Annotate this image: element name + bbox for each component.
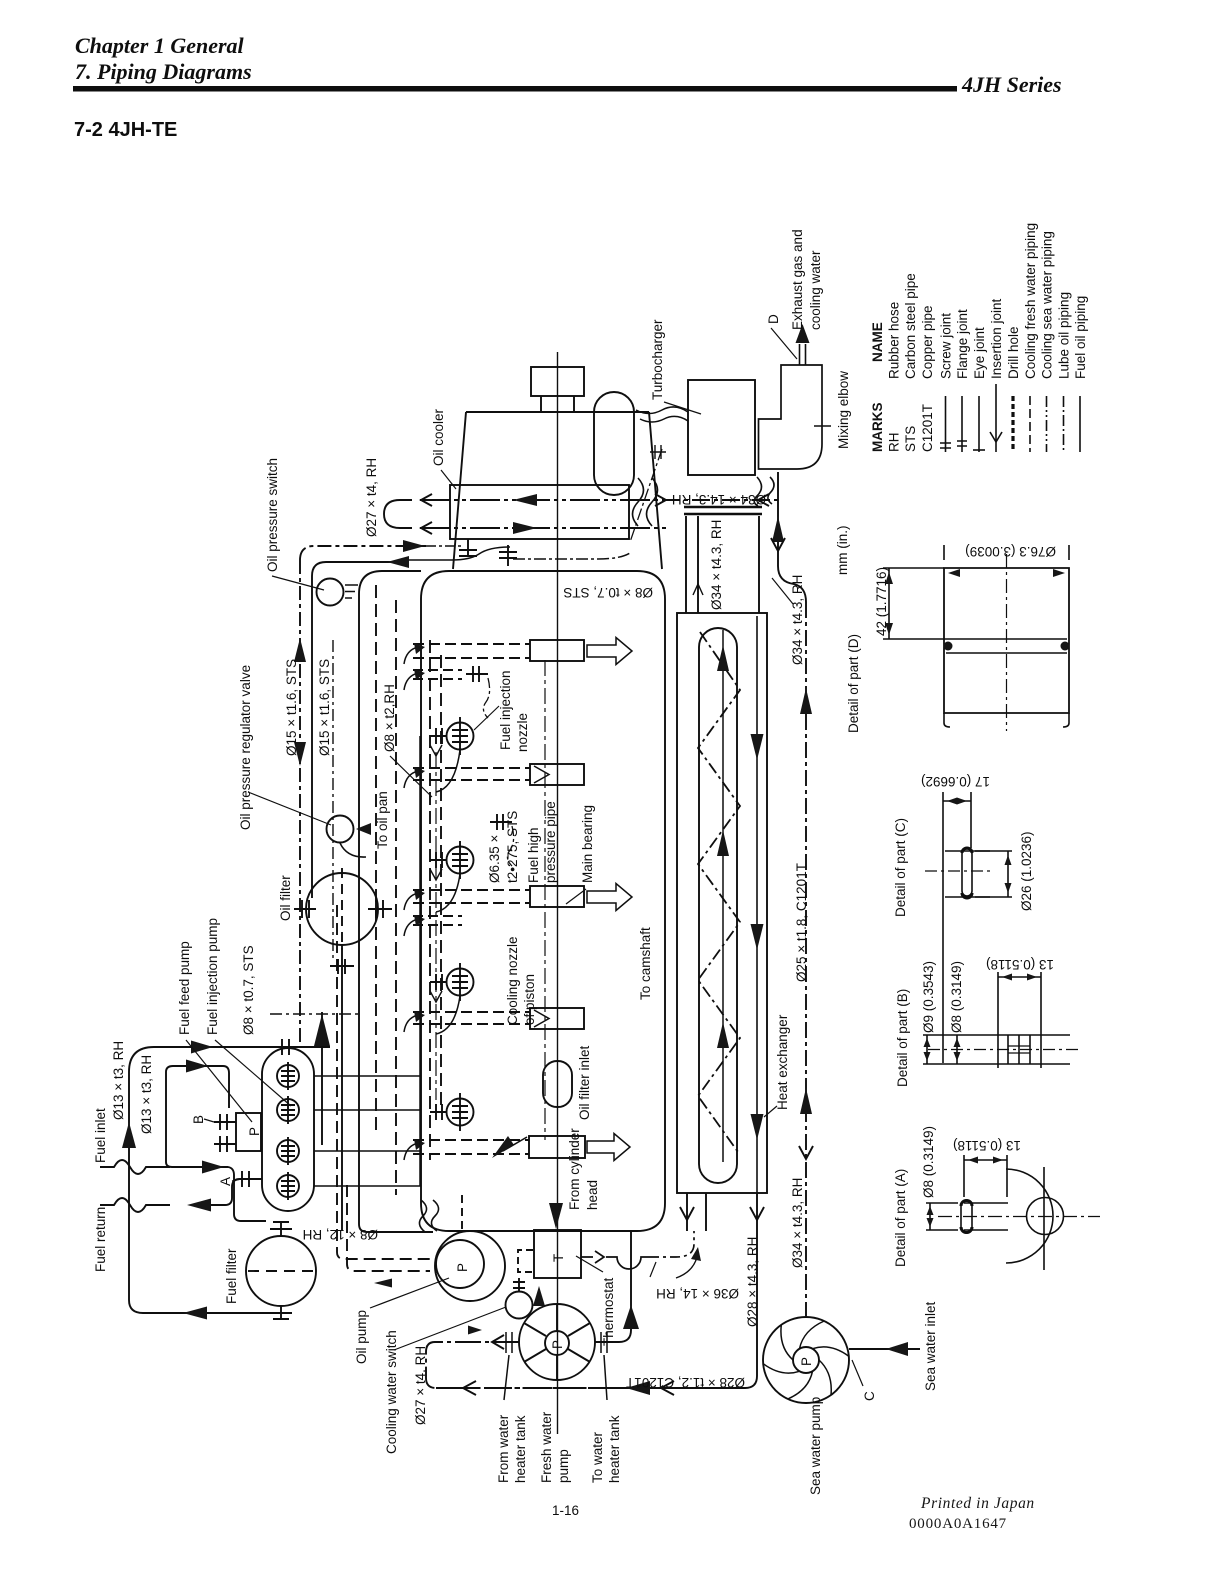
fuel gallery riser: [314, 1012, 330, 1145]
svg-text:Fresh water: Fresh water: [539, 1411, 554, 1483]
svg-text:Cooling water switch: Cooling water switch: [384, 1330, 399, 1454]
fuel injection pump body: [262, 1048, 314, 1211]
svg-text:Lube oil piping: Lube oil piping: [1057, 292, 1072, 379]
HE top flange: [684, 507, 762, 514]
svg-text:Rubber hose: Rubber hose: [887, 302, 902, 379]
HE zigzag coil: [698, 632, 740, 1152]
svg-text:RH: RH: [887, 433, 902, 453]
lube line to turbocharger (dash-dot diagonal): [630, 449, 662, 542]
svg-text:Detail of part (C): Detail of part (C): [893, 818, 908, 917]
fuel return line with pipe break: [100, 1198, 170, 1212]
svg-text:Ø8 × t2,RH: Ø8 × t2,RH: [382, 684, 397, 752]
HE outlet pipes to engine: [680, 1193, 706, 1231]
oil gallery rect row5: [413, 1134, 630, 1161]
svg-text:Ø8 × 12, RH: Ø8 × 12, RH: [303, 1227, 378, 1242]
sea water inlet line: [849, 1342, 920, 1386]
svg-text:Sea water inlet: Sea water inlet: [923, 1301, 938, 1391]
detail A centerlines: [938, 1216, 1100, 1218]
svg-text:Detail of part (D): Detail of part (D): [846, 634, 861, 733]
svg-text:7-2 4JH-TE: 7-2 4JH-TE: [74, 119, 177, 141]
svg-text:42 (1.7716): 42 (1.7716): [874, 567, 889, 636]
svg-text:Ø8 (0.3149): Ø8 (0.3149): [921, 1126, 936, 1198]
svg-text:Fuel inlet: Fuel inlet: [93, 1108, 108, 1163]
svg-text:Fuel high: Fuel high: [526, 827, 541, 883]
legend mark: insertion joint sample: [990, 384, 1002, 452]
svg-text:Fuel return: Fuel return: [93, 1207, 108, 1272]
svg-text:Screw joint: Screw joint: [939, 313, 954, 379]
MAIN DIAGRAM: [100, 324, 920, 1434]
valve cover (rocker cover trapezoid): [453, 412, 662, 569]
HE sea water return pipe: [436, 1193, 764, 1395]
svg-text:Ø26 (1.0236): Ø26 (1.0236): [1019, 831, 1034, 911]
footer text: [552, 1495, 1035, 1532]
fuel injection nozzle 2: [430, 841, 474, 880]
svg-text:Detail of part (B): Detail of part (B): [895, 989, 910, 1087]
svg-text:Detail of part (A): Detail of part (A): [893, 1169, 908, 1267]
svg-text:Carbon steel pipe: Carbon steel pipe: [903, 273, 918, 379]
svg-text:Oil pressure switch: Oil pressure switch: [265, 458, 280, 572]
flow hook arrows at gallery junctions: [404, 643, 425, 1160]
svg-text:Ø8 (0.3149): Ø8 (0.3149): [949, 961, 964, 1033]
pump element 1: [277, 1062, 299, 1090]
oil drain S-curve to block: [408, 547, 510, 560]
svg-text:Ø8 × t0.7, STS: Ø8 × t0.7, STS: [563, 585, 653, 600]
svg-text:13 (0.5118): 13 (0.5118): [953, 1138, 1021, 1153]
detail A part: banjo eye: [961, 1167, 1064, 1270]
svg-text:Cooling nozzle: Cooling nozzle: [505, 936, 520, 1025]
rubber hose U-bend left of oil cooler: [384, 500, 412, 528]
svg-text:mm (in.): mm (in.): [835, 526, 850, 576]
detail C dim 26: [975, 851, 1012, 897]
svg-text:Ø28 × t1.2, C1201T: Ø28 × t1.2, C1201T: [626, 1375, 745, 1390]
svg-text:1-16: 1-16: [552, 1503, 579, 1518]
HE internal tube lines with arrows: [717, 630, 729, 1162]
svg-text:Main bearing: Main bearing: [580, 805, 595, 883]
fw pump suction pipe: [426, 1326, 624, 1396]
svg-text:C: C: [862, 1391, 877, 1401]
svg-text:T: T: [551, 1254, 566, 1262]
oil line filter to pump: [330, 945, 354, 1231]
mixing elbow: [759, 365, 823, 469]
svg-text:17 (0.6692): 17 (0.6692): [921, 774, 990, 789]
oil cooler pipe 2: [420, 522, 668, 534]
high pressure pipe curves: [436, 750, 460, 1034]
svg-text:Flange joint: Flange joint: [955, 309, 970, 379]
bellows turbo bottom: [754, 477, 774, 506]
right elbow downpipe: [771, 472, 806, 602]
wavy joint engine to turbocharger: [636, 407, 688, 422]
engine block outline: [421, 571, 665, 1231]
svg-text:Fuel oil piping: Fuel oil piping: [1073, 296, 1088, 379]
engine center line: [557, 352, 559, 1434]
svg-text:Thermostat: Thermostat: [601, 1277, 616, 1346]
detail B dim lines: [924, 972, 1042, 1064]
svg-text:of piston: of piston: [522, 974, 537, 1025]
A port fitting: [242, 1171, 249, 1187]
legend mark: lube oil piping sample: [1063, 396, 1065, 452]
svg-text:Cooling sea water piping: Cooling sea water piping: [1040, 231, 1055, 379]
detail C dim 17: [943, 798, 971, 805]
svg-text:MARKS: MARKS: [870, 403, 885, 453]
header text: [74, 33, 1062, 141]
fuel inlet line with pipe break: [100, 1160, 170, 1174]
fuel feed pump: [214, 1113, 261, 1152]
svg-text:Ø34 × 14.3, RH: Ø34 × 14.3, RH: [672, 492, 766, 507]
svg-text:From water: From water: [496, 1414, 511, 1483]
detail D hose body: [944, 568, 1070, 727]
svg-text:To water: To water: [590, 1431, 605, 1483]
svg-text:To camshaft: To camshaft: [638, 927, 653, 1000]
svg-text:Mixing elbow: Mixing elbow: [836, 371, 851, 449]
svg-text:D: D: [766, 314, 781, 324]
svg-text:Insertion joint: Insertion joint: [989, 298, 1004, 379]
cooling water switch: [394, 1292, 533, 1351]
svg-text:pump: pump: [556, 1449, 571, 1483]
oil pressure regulator valve: [248, 792, 371, 857]
svg-text:Ø36 × 14, RH: Ø36 × 14, RH: [656, 1286, 739, 1301]
svg-text:Ø8 × t0.7, STS: Ø8 × t0.7, STS: [241, 945, 256, 1035]
fw pump outlet riser: [595, 1231, 639, 1342]
heater tank flanges: [504, 1332, 607, 1400]
svg-text:13 (0.5118): 13 (0.5118): [986, 957, 1054, 972]
svg-text:Exhaust gas and: Exhaust gas and: [790, 229, 805, 330]
fresh water pump: [519, 1304, 595, 1380]
svg-text:Ø34 × t4.3, RH: Ø34 × t4.3, RH: [790, 575, 805, 665]
svg-text:nozzle: nozzle: [515, 713, 530, 752]
oil feed line to cooler (dash-dot): [294, 540, 426, 1042]
svg-text:C1201T: C1201T: [920, 404, 935, 452]
svg-text:Oil pump: Oil pump: [354, 1310, 369, 1364]
secondary dashed feed rows: [413, 670, 462, 679]
oil pump inlet bellows: [419, 1200, 438, 1232]
fuel filter: [246, 1221, 316, 1320]
fuel injection nozzle 1: [430, 717, 474, 756]
detail B part: [923, 1031, 1070, 1068]
oil cooler drain fitting 1: [459, 539, 477, 557]
svg-text:Turbocharger: Turbocharger: [650, 319, 665, 400]
svg-text:Oil filter inlet: Oil filter inlet: [577, 1045, 592, 1120]
screw fitting on valve cover right: [650, 445, 666, 459]
heat exchanger shell: [677, 613, 767, 1193]
svg-text:Ø15 × t1.6, STS: Ø15 × t1.6, STS: [284, 659, 299, 756]
legend mark: screw joint sample: [940, 396, 951, 452]
thermostat outlet hose to heat exchanger: [581, 1231, 701, 1278]
svg-text:Drill hole: Drill hole: [1006, 326, 1021, 379]
filler cap: [531, 367, 584, 413]
DETAILS: [883, 545, 1100, 1270]
oil pressure switch: [272, 576, 358, 606]
svg-text:Oil cooler: Oil cooler: [431, 408, 446, 466]
svg-text:Ø15 × t1.6, STS: Ø15 × t1.6, STS: [317, 659, 332, 756]
svg-text:Ø6.35 ×: Ø6.35 ×: [487, 835, 502, 883]
fuel outer loop: [122, 1041, 330, 1320]
fuel injection nozzle 3: [430, 963, 474, 1002]
pump element 4: [277, 1172, 299, 1200]
LEGEND: [940, 384, 1080, 452]
svg-text:Fuel feed pump: Fuel feed pump: [177, 941, 192, 1035]
legend mark: eye joint sample: [973, 396, 985, 452]
HE inner tube capsule: [699, 628, 737, 1183]
camshaft feed rect row2: [413, 764, 584, 785]
detail A dim 8: [926, 1203, 958, 1230]
oil gallery dashed risers: [375, 585, 377, 1135]
detail D centerline: [1006, 554, 1008, 731]
legend mark: drill hole sample: [1011, 396, 1014, 452]
exhaust gas arrow D: [771, 324, 810, 365]
detail A dim 13: [964, 1155, 1007, 1197]
svg-text:heater tank: heater tank: [513, 1415, 528, 1483]
svg-text:Ø28 × t4.3, RH: Ø28 × t4.3, RH: [745, 1237, 760, 1327]
turbocharger: [688, 380, 755, 475]
svg-text:Ø76.3 (3.0039): Ø76.3 (3.0039): [965, 544, 1056, 559]
detail C centerline: [925, 870, 990, 872]
svg-text:7. Piping Diagrams: 7. Piping Diagrams: [75, 59, 252, 84]
svg-text:B: B: [191, 1115, 206, 1124]
svg-text:head: head: [585, 1180, 600, 1210]
svg-text:P: P: [247, 1127, 262, 1136]
svg-text:Heat exchanger: Heat exchanger: [775, 1014, 790, 1110]
detail labels: [835, 526, 1056, 1268]
svg-text:NAME: NAME: [870, 322, 885, 362]
legend mark: cooling fresh water piping sample: [1029, 396, 1031, 452]
fuel injection nozzle 4: [430, 1093, 474, 1131]
sea water riser (dash-dot): [799, 602, 813, 1316]
svg-text:Copper pipe: Copper pipe: [920, 305, 935, 379]
svg-text:Printed in Japan: Printed in Japan: [920, 1495, 1035, 1512]
svg-text:P: P: [455, 1263, 470, 1272]
injection delivery lines: [314, 1076, 421, 1186]
oil cooler pipe 1: [420, 494, 680, 506]
svg-text:Ø13 × t3, RH: Ø13 × t3, RH: [139, 1055, 154, 1134]
engine block outer left wall: [359, 571, 433, 1232]
cam centerline dashdot: [544, 660, 546, 1140]
svg-text:Ø27 × t4, RH: Ø27 × t4, RH: [413, 1346, 428, 1425]
screw fittings on head: [466, 666, 490, 718]
fuel leak-off dashed lines: [337, 905, 462, 1288]
svg-text:From cylinder: From cylinder: [567, 1128, 582, 1210]
HP pipe bundle riser: [419, 736, 421, 1186]
legend mark: flange joint sample: [957, 396, 967, 452]
oil return line from cooler: [312, 556, 409, 898]
svg-text:Oil filter: Oil filter: [278, 875, 293, 921]
svg-text:Oil pressure regulator valve: Oil pressure regulator valve: [238, 665, 253, 830]
fuel inner loop: [166, 1060, 266, 1222]
oil filter inlet capsule: [543, 1061, 572, 1107]
HE neck: [686, 516, 759, 613]
legend mark: fuel oil piping sample: [1079, 396, 1081, 452]
svg-text:4JH Series: 4JH Series: [961, 72, 1062, 97]
oil pump leader: [370, 1278, 449, 1308]
svg-text:P: P: [550, 1340, 565, 1349]
legend text: [870, 223, 1088, 452]
detail D dim 42: [883, 568, 946, 639]
svg-text:Eye joint: Eye joint: [972, 327, 987, 379]
fuel gallery line into block (dash-dot): [270, 1013, 360, 1015]
svg-text:cooling water: cooling water: [808, 250, 823, 330]
svg-text:Ø34 × t4.3, RH: Ø34 × t4.3, RH: [790, 1178, 805, 1268]
svg-text:Ø34 × t4.3, RH: Ø34 × t4.3, RH: [709, 520, 724, 610]
engine water outlet hose to HE (y500): [655, 494, 778, 506]
svg-text:To oil pan: To oil pan: [375, 791, 390, 849]
svg-text:Fuel injection: Fuel injection: [498, 670, 513, 750]
svg-text:Cooling fresh water piping: Cooling fresh water piping: [1023, 223, 1038, 379]
oil cooler body: [450, 485, 629, 539]
svg-text:Ø27 × t4, RH: Ø27 × t4, RH: [364, 458, 379, 537]
main bearing rect row1: [413, 638, 632, 665]
detail D dim 76.3: [944, 545, 1069, 577]
injection pump top fitting: [282, 1039, 289, 1055]
detail B centerline: [928, 1049, 1078, 1051]
svg-text:t2•275, STS: t2•275, STS: [505, 811, 520, 883]
svg-text:pressure pipe: pressure pipe: [543, 801, 558, 883]
svg-text:Sea water pump: Sea water pump: [808, 1397, 823, 1495]
oil pump: [435, 1231, 505, 1301]
fuel A-port return: [187, 1179, 262, 1212]
fuel return rail: [332, 640, 334, 958]
oil cooler drain fitting 2: [499, 545, 517, 566]
thermostat box: [513, 1230, 603, 1306]
leader lines for labels: [186, 402, 793, 1181]
svg-text:0000A0A1647: 0000A0A1647: [909, 1516, 1007, 1532]
svg-text:P: P: [799, 1357, 814, 1366]
bellows engine right side: [633, 478, 658, 526]
svg-text:Fuel injection pump: Fuel injection pump: [205, 918, 220, 1035]
nozzle leak-off risers: [435, 752, 437, 1100]
camshaft feed rect row4: [413, 1008, 584, 1029]
main bearing rect row3: [413, 884, 632, 911]
svg-text:Fuel filter: Fuel filter: [224, 1248, 239, 1304]
svg-text:Ø13 × t3, RH: Ø13 × t3, RH: [111, 1041, 126, 1120]
header rule: [73, 86, 957, 92]
from cylinder head arrow: [549, 1203, 563, 1229]
pump element 3: [277, 1137, 299, 1165]
svg-text:Ø25 × t1.8, C1201T: Ø25 × t1.8, C1201T: [794, 863, 809, 982]
exhaust manifold capsule: [594, 392, 634, 495]
detail C part: [943, 792, 990, 1063]
svg-text:Ø9 (0.3543): Ø9 (0.3543): [921, 961, 936, 1033]
sea water pump: [763, 1317, 849, 1403]
pump element 2: [277, 1096, 299, 1124]
svg-text:A: A: [218, 1177, 233, 1186]
legend mark: cooling sea water piping sample: [1046, 396, 1048, 452]
svg-text:Chapter 1 General: Chapter 1 General: [75, 33, 245, 58]
oil filter: [294, 868, 392, 950]
svg-text:STS: STS: [903, 426, 918, 452]
svg-text:heater tank: heater tank: [607, 1415, 622, 1483]
